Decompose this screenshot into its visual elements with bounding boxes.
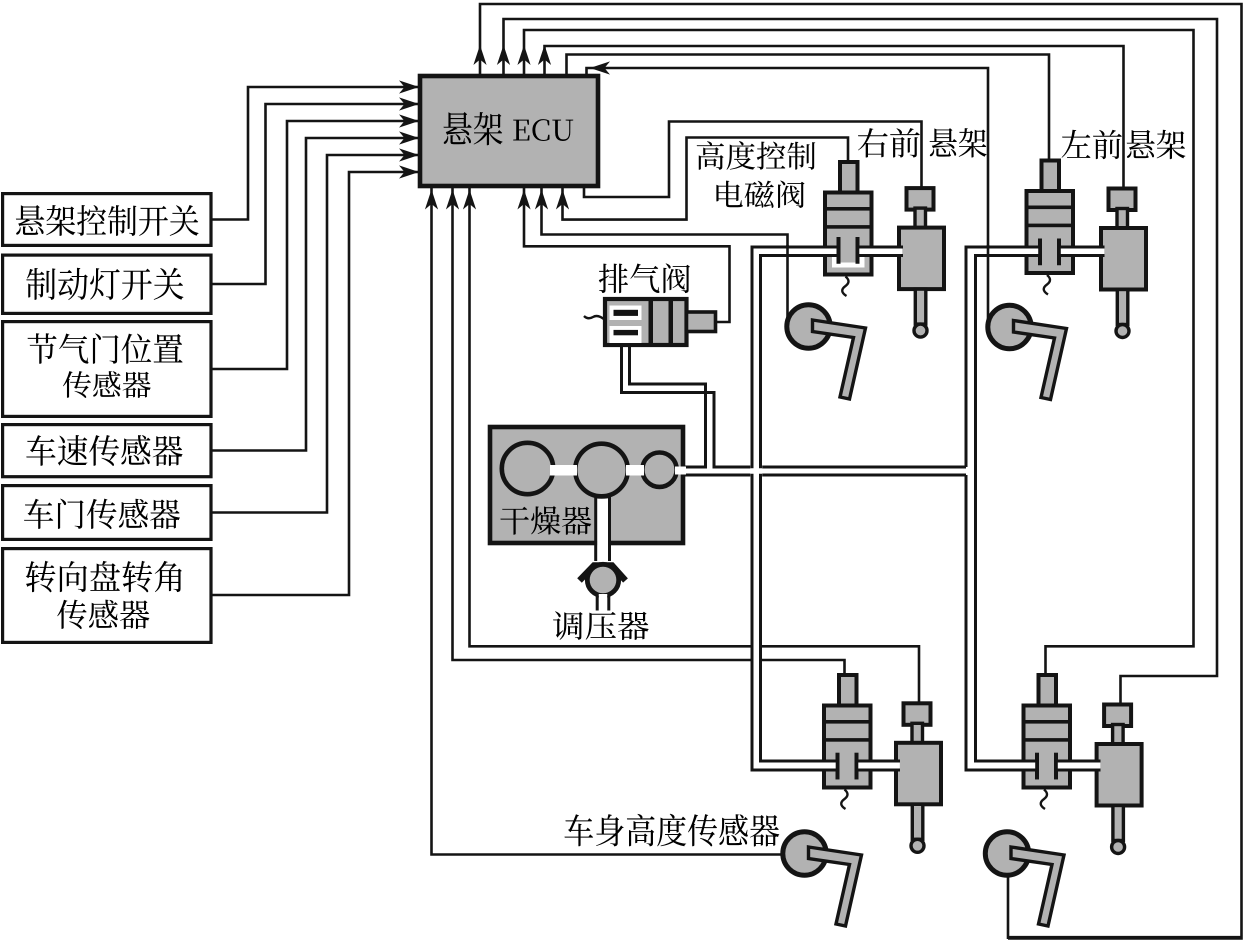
air link front-left solenoid to shock xyxy=(1067,248,1107,254)
air pipe left riser (front-left port to rear-left port) xyxy=(971,251,1036,765)
regulator label 调压器 xyxy=(553,611,649,640)
wire ECU to left-front shock actuator (line D) xyxy=(545,46,1124,190)
label 左前 (front left) xyxy=(1062,130,1122,159)
wire ECU to right-front solenoid valve xyxy=(563,138,849,220)
air port channel rear-right solenoid xyxy=(754,763,836,769)
dryer label 干燥器 xyxy=(500,506,591,535)
wire ECU to right-rear height sensor xyxy=(432,187,799,855)
exhaust valve lead squiggle xyxy=(584,316,605,320)
air link rear-left solenoid to shock xyxy=(1063,763,1103,769)
height control solenoid valve rear-left xyxy=(1039,675,1057,707)
pressure regulator xyxy=(580,566,626,581)
wire ECU to left-front solenoid valve (line E) xyxy=(567,55,1050,164)
shock absorber front-left xyxy=(1109,189,1136,211)
air link front-right solenoid to shock xyxy=(866,248,905,254)
wire input box 3 to ECU xyxy=(211,121,419,369)
input box 转向盘转角传感器 xyxy=(3,549,211,643)
shock absorber rear-right xyxy=(904,703,931,725)
air port channel rear-left solenoid xyxy=(968,763,1036,769)
exhaust valve xyxy=(605,299,687,345)
input box 车速传感器 xyxy=(3,425,211,477)
height sensor rear-left xyxy=(985,832,1028,875)
label 车身高度传感器 (body height sensor) xyxy=(564,814,779,847)
label 悬架 (suspension, right) xyxy=(930,128,987,157)
label 高度控制 (height control) xyxy=(697,141,816,170)
air link rear-right solenoid to shock xyxy=(864,763,902,769)
exhaust valve nozzle xyxy=(687,312,716,332)
height sensor rear-right xyxy=(783,832,826,875)
wire input box 4 to ECU xyxy=(211,138,419,451)
height sensor front-left xyxy=(988,305,1031,348)
label 右前 (front right) xyxy=(858,128,920,157)
input box 车门传感器 xyxy=(3,486,211,540)
air port channel front-right solenoid xyxy=(754,249,837,255)
wire ECU to left-rear height sensor (line A) xyxy=(480,4,1242,936)
label 电磁阀 (solenoid valve) xyxy=(716,180,804,208)
wire ECU to right-rear solenoid valve xyxy=(453,187,845,677)
height control solenoid valve front-left xyxy=(1042,161,1060,193)
wire input box 5 to ECU xyxy=(211,155,419,513)
shock absorber rear-left xyxy=(1104,705,1131,727)
label 悬架 (suspension, left) xyxy=(1127,130,1186,159)
wire left-front height sensor to ECU (line F) xyxy=(587,68,989,327)
wire ECU to left-rear solenoid valve (line C) xyxy=(524,30,1194,677)
suspension ECU U1 xyxy=(420,76,598,186)
wire ECU to right-front height sensor xyxy=(542,187,788,326)
dryer desiccant circle 3 xyxy=(642,453,676,487)
input box 节气门位置传感器 xyxy=(3,322,211,417)
height control solenoid valve front-right xyxy=(840,162,858,194)
air port channel front-left solenoid xyxy=(968,249,1039,255)
wire ECU to left-rear shock actuator (line B) xyxy=(504,19,1218,705)
input box 悬架控制开关 xyxy=(3,194,211,246)
wire input box 1 to ECU xyxy=(211,87,419,220)
shock absorber front-right xyxy=(907,188,934,210)
wire ECU to exhaust valve xyxy=(524,187,730,322)
wire input box 6 to ECU xyxy=(211,172,419,595)
dryer box xyxy=(490,427,683,543)
wire input box 2 to ECU xyxy=(211,104,419,284)
exhaust valve label 排气阀 xyxy=(599,263,690,293)
dryer desiccant circle 1 xyxy=(502,443,553,494)
air pipe dryer to regulator xyxy=(597,499,608,561)
wire ECU to right-rear shock actuator xyxy=(470,187,920,705)
air pipe exhaust valve to dryer line xyxy=(626,340,710,470)
input box 制动灯开关 xyxy=(3,255,211,313)
air pipe dryer output to risers xyxy=(679,468,968,474)
dryer desiccant circle 2 xyxy=(575,444,628,497)
height sensor front-right xyxy=(787,305,830,348)
air pipe right riser (front-right port to rear-right port) xyxy=(756,251,835,765)
height control solenoid valve rear-right xyxy=(839,675,857,707)
wire ECU to right-front shock actuator xyxy=(584,122,922,198)
dryer internal channels xyxy=(550,465,577,476)
